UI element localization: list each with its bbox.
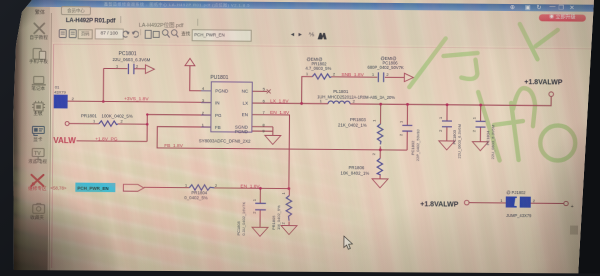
svg-text:1UH_MHCD252012A-1R0M-A85_3A_20: 1UH_MHCD252012A-1R0M-A85_3A_20% [317,94,395,100]
svg-text:1: 1 [116,63,119,68]
svg-text:+1.8VALWP: +1.8VALWP [420,201,459,208]
svg-text:1: 1 [281,192,286,195]
svg-text:2: 2 [371,152,376,155]
svg-text:100K_0402_5%: 100K_0402_5% [101,113,132,118]
svg-text:EN_1.8V: EN_1.8V [240,184,260,190]
svg-text:2: 2 [533,198,536,203]
svg-text:@ PJ1802: @ PJ1802 [506,190,526,195]
svg-text:PL1801: PL1801 [333,89,349,94]
svg-text:2: 2 [215,183,218,188]
svg-text:1: 1 [472,116,477,119]
svg-text:1: 1 [398,120,403,123]
svg-text:22U_0603_6.3V6M: 22U_0603_6.3V6M [457,124,462,159]
svg-text:7: 7 [263,110,266,115]
svg-text:21K_0402_1%: 21K_0402_1% [338,122,367,127]
svg-text:1: 1 [306,71,309,76]
svg-text:2: 2 [252,211,257,214]
svg-text:PG: PG [215,113,222,118]
svg-text:PGND: PGND [215,89,229,94]
svg-text:PU1801: PU1801 [210,75,228,81]
svg-text:1: 1 [202,122,205,127]
svg-text:1M_0402_5%: 1M_0402_5% [276,205,281,230]
svg-text:2: 2 [333,72,336,77]
svg-text:22P_0402_50V8J: 22P_0402_50V8J [415,129,420,161]
svg-text:<58,78>: <58,78> [50,185,67,190]
svg-text:0_0402_5%: 0_0402_5% [184,195,208,200]
svg-text:5: 5 [263,87,266,92]
svg-text:SY8003ADFC_DFN8_2X2: SY8003ADFC_DFN8_2X2 [199,138,251,143]
svg-text:2: 2 [398,133,403,136]
svg-text:2: 2 [386,72,389,77]
svg-text:4: 4 [202,86,205,91]
svg-text:IN: IN [215,100,220,105]
svg-text:0.1U_0402_16V7K: 0.1U_0402_16V7K [241,202,246,236]
svg-text:EN: EN [242,112,248,117]
svg-text:LX: LX [243,101,249,106]
svg-text:FB: FB [215,125,221,130]
svg-text:SNB_1.8V: SNB_1.8V [341,72,364,78]
svg-text:+: + [571,204,574,210]
svg-text:1: 1 [438,116,443,119]
svg-text:+1.8V_PG: +1.8V_PG [95,136,118,142]
svg-text:2: 2 [72,96,75,101]
svg-text:1: 1 [372,72,375,77]
svg-text:22U_0603_6.3V6M: 22U_0603_6.3V6M [112,57,150,62]
svg-text:4.7_0603_5%: 4.7_0603_5% [305,66,331,71]
svg-text:EN_1.8V: EN_1.8V [270,110,290,116]
svg-text:680P_0402_50V7K: 680P_0402_50V7K [367,65,404,70]
svg-text:+1.8VALWP: +1.8VALWP [524,79,563,86]
svg-text:+3VS_1.8V: +3VS_1.8V [124,96,149,102]
svg-text:2: 2 [120,119,123,124]
svg-text:1: 1 [93,118,96,123]
svg-text:LX_1.8V: LX_1.8V [270,98,289,104]
svg-text:43X79: 43X79 [54,90,66,95]
svg-text:2: 2 [438,129,443,132]
svg-text:FB_1.8V: FB_1.8V [164,143,184,149]
svg-text:JUMP_43X79: JUMP_43X79 [506,213,532,218]
svg-text:PCH_PWR_EN: PCH_PWR_EN [77,186,108,191]
svg-text:NC: NC [242,89,249,94]
svg-text:PGND: PGND [235,129,249,134]
svg-text:2: 2 [471,129,476,132]
svg-text:10K_0402_1%: 10K_0402_1% [340,170,369,175]
svg-text:2: 2 [202,110,205,115]
svg-text:01: 01 [55,84,60,89]
svg-text:2: 2 [281,222,286,225]
svg-text:22U_0603_6.3V6M: 22U_0603_6.3V6M [490,125,495,160]
svg-text:1: 1 [185,183,188,188]
svg-text:1: 1 [252,198,257,201]
svg-text:2: 2 [136,64,139,69]
svg-text:6: 6 [263,98,266,103]
svg-text:VALW: VALW [53,136,76,145]
svg-text:1: 1 [500,198,503,203]
svg-text:1: 1 [371,119,376,122]
